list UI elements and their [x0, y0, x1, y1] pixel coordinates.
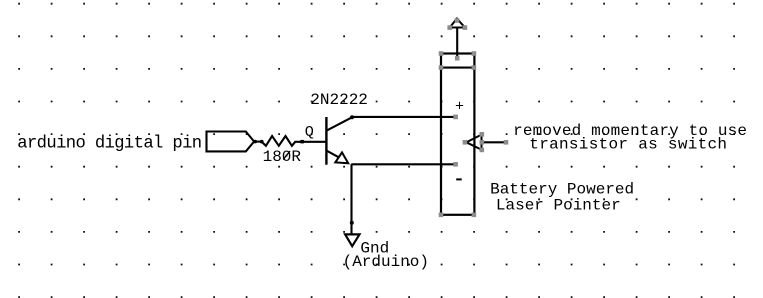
emitter wire down to ground: [350, 164, 352, 233]
handle: collector wire end at +: [453, 115, 458, 120]
battery box: [441, 54, 474, 215]
handle: left-arrow tip: [463, 140, 468, 145]
handle: battery box bottom-left corner: [439, 213, 444, 218]
up arrow symbol: [450, 19, 465, 28]
emitter arrow: [335, 152, 348, 163]
handle: left-arrow base center: [480, 140, 485, 145]
handle: left-arrow top corner: [480, 132, 485, 137]
handle: emitter wire end at -: [453, 162, 458, 167]
resistor R 180R: [262, 136, 327, 146]
ground symbol: [345, 234, 359, 246]
left arrow (momentary switch note): [466, 135, 481, 150]
handle: battery box top-left corner: [439, 51, 444, 56]
collector diagonal: [326, 117, 352, 130]
svg-text:+: +: [455, 98, 464, 115]
handle: up-arrow base right: [463, 25, 468, 30]
handle: battery box bottom-right corner: [472, 213, 477, 218]
junction dot on ground wire: [350, 221, 354, 225]
handle: up-arrow tip: [455, 18, 460, 23]
svg-text:180R: 180R: [263, 148, 302, 166]
handle: battery inner line right end: [472, 65, 477, 70]
handle: up-arrow base left: [447, 25, 452, 30]
handle: battery box top-right corner: [472, 51, 477, 56]
handle: battery inner line left end: [439, 65, 444, 70]
wire battery top to arrow: [456, 28, 458, 59]
handle: left-arrow bottom corner: [480, 148, 485, 153]
battery inner line: [441, 67, 474, 69]
selection handles (gray endpoint markers): [439, 18, 509, 217]
square cue at resistor right pin: [300, 140, 304, 144]
emitter diagonal: [326, 151, 338, 158]
junction dot at resistor left pin: [260, 140, 264, 144]
handle: pointer wire end: [504, 140, 509, 145]
svg-text:2N2222: 2N2222: [310, 91, 368, 109]
svg-text:Q: Q: [305, 123, 314, 141]
collector corner dot: [350, 115, 354, 119]
collector wire to battery +: [352, 116, 456, 118]
transistor Q1 2N2222: base bar: [325, 117, 327, 165]
junction dot at tag tip: [253, 140, 257, 144]
svg-text:transistor as switch: transistor as switch: [529, 136, 727, 154]
svg-text:arduino digital pin: arduino digital pin: [17, 134, 201, 153]
wire tag to resistor: [255, 141, 263, 143]
minus terminal label: [456, 178, 462, 180]
net tag (input pin symbol): [207, 132, 255, 152]
arrow wire: [482, 141, 506, 143]
emitter wire to battery -: [351, 163, 455, 165]
svg-text:Laser Pointer: Laser Pointer: [496, 197, 621, 215]
handle: battery top wire end: [455, 56, 460, 61]
svg-text:(Arduino): (Arduino): [343, 253, 429, 271]
